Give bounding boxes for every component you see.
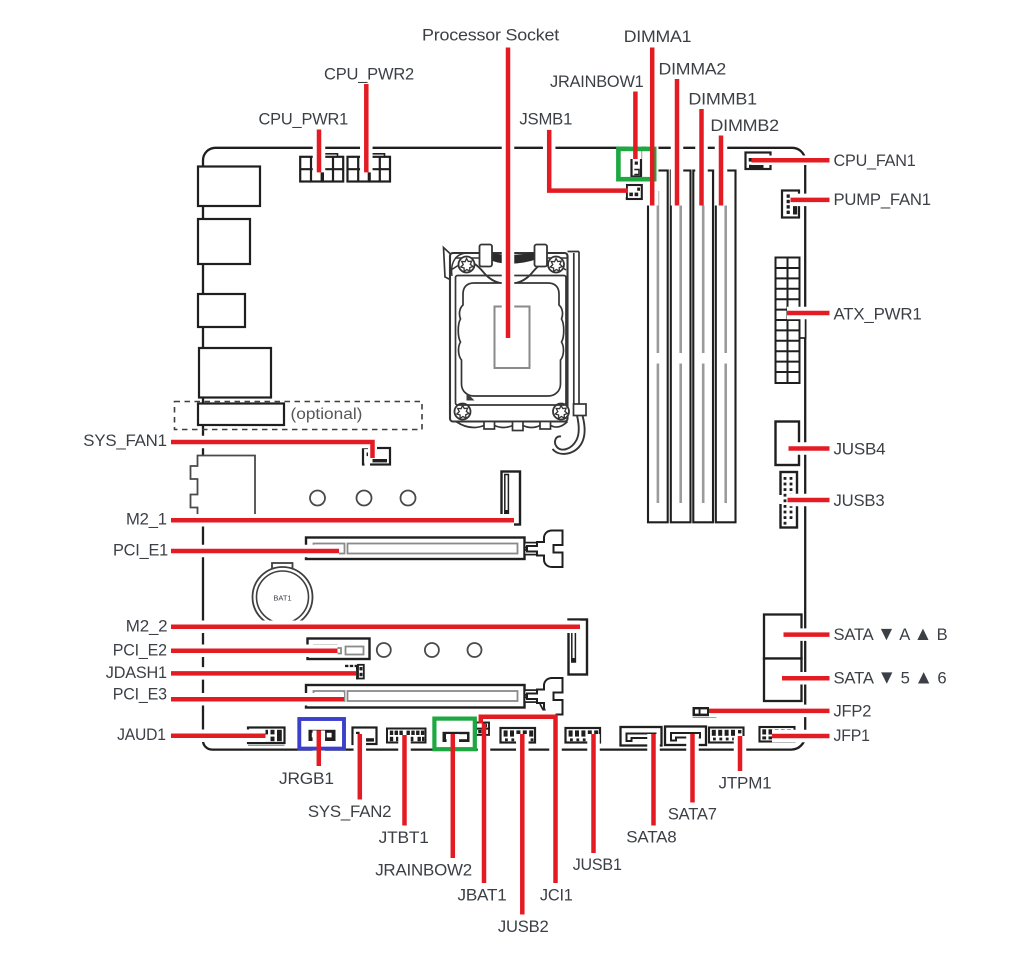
leader JUSB2: [520, 734, 525, 915]
screw bottom-right: [553, 404, 569, 420]
leader DIMMB2: [719, 136, 724, 206]
svg-text:DIMMA2: DIMMA2: [659, 60, 727, 79]
leader SATA8: [651, 734, 656, 826]
leader DIMMA1: [650, 48, 655, 206]
white casings under leader lines: [171, 48, 830, 915]
highlight box JRAINBOW1 (green): [618, 149, 654, 179]
PCIe slot PCI_E1: [306, 538, 525, 560]
mounting hole E: [425, 643, 439, 657]
socket inner plate: [456, 276, 567, 406]
mounting hole D: [377, 643, 391, 657]
leader JAUD1: [171, 734, 266, 739]
connector JRAINBOW2: [443, 732, 470, 742]
highlight box JRAINBOW2 (green): [434, 719, 474, 750]
socket hinge flap top-left: [444, 248, 452, 281]
M.2 slot M2_1: [502, 472, 521, 525]
connector JUSB3: [779, 472, 797, 528]
leader PCI_E2: [171, 648, 338, 653]
socket cavity: [458, 283, 564, 396]
connector JFP2: [693, 707, 717, 717]
connector JBAT1: [476, 729, 489, 735]
leader PUMP_FAN1: [791, 198, 830, 203]
M.2 slot M2_2: [569, 620, 588, 675]
leader CPU_PWR2: [364, 84, 369, 172]
svg-text:JDASH1: JDASH1: [106, 663, 167, 682]
svg-text:CPU_PWR1: CPU_PWR1: [259, 110, 349, 129]
socket frame: [450, 253, 568, 422]
svg-text:CPU_FAN1: CPU_FAN1: [834, 151, 916, 170]
svg-text:PCI_E1: PCI_E1: [113, 540, 168, 559]
rear I/O port 2: [198, 219, 250, 264]
leader JCI1: [479, 715, 558, 883]
svg-text:JUSB2: JUSB2: [498, 917, 549, 936]
svg-text:JRAINBOW1: JRAINBOW1: [550, 72, 644, 91]
optional dashed box: [175, 402, 423, 430]
socket tab right: [535, 245, 548, 267]
leader JFP1: [772, 734, 830, 739]
connector JTPM1: [709, 728, 744, 743]
svg-text:JAUD1: JAUD1: [117, 725, 166, 744]
connector JTBT1: [387, 729, 426, 743]
leader JRAINBOW2: [451, 734, 456, 858]
svg-text:PCI_E2: PCI_E2: [113, 640, 167, 659]
connector SATA7: [665, 727, 706, 746]
leader CPU_PWR1: [317, 130, 322, 173]
connector SYS_FAN2: [353, 728, 377, 746]
connector CPU_PWR1: [300, 154, 343, 182]
svg-text:Processor Socket: Processor Socket: [422, 26, 560, 45]
DIMM slot DIMMB1: [693, 171, 713, 523]
leader JDASH1: [171, 671, 356, 676]
svg-text:JTBT1: JTBT1: [379, 828, 429, 847]
connector JSMB1: [627, 185, 642, 199]
DIMM slot DIMMB2: [716, 171, 736, 523]
mounting hole A: [310, 491, 325, 506]
connector JCI1: [476, 723, 489, 729]
connector CPU_PWR2: [348, 154, 391, 182]
svg-text:M2_1: M2_1: [126, 509, 167, 528]
connector JDASH1: [344, 665, 364, 679]
svg-text:BAT1: BAT1: [273, 594, 291, 603]
leader lines (red): [171, 48, 830, 915]
screw ear top-left: [452, 253, 466, 276]
leader JFP2: [709, 709, 830, 714]
leader M2_1: [171, 518, 514, 523]
mounting hole F: [468, 643, 482, 657]
audio codec chip: [191, 456, 256, 517]
leader CPU_FAN1: [752, 158, 830, 163]
socket cover clip shade: [486, 252, 539, 264]
svg-text:JRAINBOW2: JRAINBOW2: [375, 861, 472, 880]
leader PCI_E3: [171, 697, 344, 702]
battery BAT1: [253, 563, 313, 627]
PCI_E3 retention latch: [525, 678, 563, 715]
screw top-left: [459, 257, 475, 273]
socket tab left: [480, 245, 493, 267]
leader SATA7: [690, 734, 695, 803]
PCI_E1 retention latch: [525, 531, 563, 568]
leader JTBT1: [402, 735, 407, 826]
svg-text:JCI1: JCI1: [540, 886, 573, 905]
mounting hole C: [401, 491, 416, 506]
connector SATA A/B: [764, 615, 802, 659]
connector JRGB1: [309, 730, 336, 741]
rear I/O port 3: [198, 294, 245, 327]
leader JUSB4: [789, 446, 830, 451]
leader PCI_E1: [171, 549, 339, 554]
rear I/O port 1: [198, 167, 260, 207]
screw bottom-left: [455, 404, 471, 420]
svg-text:SATA8: SATA8: [626, 828, 676, 847]
svg-text:JBAT1: JBAT1: [458, 886, 507, 905]
connector JUSB1: [566, 728, 601, 743]
svg-text:SATA ▼ 5 ▲ 6: SATA ▼ 5 ▲ 6: [834, 667, 947, 689]
svg-text:M2_2: M2_2: [126, 616, 168, 635]
connector JFP1: [760, 727, 795, 742]
board outline: [203, 148, 805, 750]
leader JUSB3: [788, 498, 830, 503]
connector JUSB4: [776, 422, 800, 466]
processor socket U1: [444, 245, 587, 454]
leader JTPM1: [738, 736, 743, 771]
DIMM slot DIMMA1: [648, 171, 668, 523]
leader M2_2: [171, 625, 580, 630]
cpu die area: [495, 307, 530, 369]
svg-text:JUSB1: JUSB1: [573, 855, 622, 874]
svg-text:JTPM1: JTPM1: [719, 774, 772, 793]
svg-text:JFP1: JFP1: [834, 726, 870, 745]
PCIe slot PCI_E2: [308, 639, 370, 660]
leader ATX_PWR1: [787, 311, 830, 316]
highlight box JRGB1 (blue): [299, 719, 344, 749]
leader JUSB1: [591, 734, 596, 853]
connector PUMP_FAN1: [782, 191, 799, 218]
leader Processor Socket: [506, 48, 511, 339]
pin-1 triangle: [467, 393, 475, 401]
leader DIMMB1: [699, 109, 704, 206]
svg-text:SYS_FAN1: SYS_FAN1: [83, 431, 167, 450]
svg-text:(optional): (optional): [291, 406, 363, 423]
connector SYS_FAN1: [363, 448, 390, 466]
leader DIMMA2: [675, 79, 680, 206]
svg-text:PUMP_FAN1: PUMP_FAN1: [834, 190, 931, 209]
leader JSMB1: [547, 130, 628, 191]
svg-text:SATA7: SATA7: [668, 805, 717, 824]
socket lever rail: [568, 252, 580, 405]
socket top rail: [451, 258, 567, 270]
mounting hole B: [357, 491, 372, 506]
connector SATA8: [621, 727, 662, 746]
leader JBAT1: [482, 724, 487, 884]
connector CPU_FAN1: [746, 153, 771, 170]
svg-text:JUSB4: JUSB4: [834, 440, 886, 459]
svg-text:DIMMB1: DIMMB1: [688, 90, 757, 109]
svg-text:PCI_E3: PCI_E3: [113, 685, 167, 704]
lever latch: [574, 404, 587, 416]
svg-text:ATX_PWR1: ATX_PWR1: [834, 305, 922, 324]
svg-text:JRGB1: JRGB1: [279, 769, 334, 788]
leader SYS_FAN1: [171, 440, 375, 458]
socket clip wire: [459, 261, 557, 284]
rear I/O port 4: [199, 348, 271, 398]
leader JRGB1: [317, 731, 322, 767]
leader SATA 5/6: [782, 676, 830, 681]
DIMM slot DIMMA2: [671, 171, 691, 523]
leader SYS_FAN2: [358, 734, 363, 800]
svg-text:JUSB3: JUSB3: [834, 491, 885, 510]
socket bottom tabs: [456, 422, 568, 428]
connector ATX_PWR1: [776, 258, 806, 384]
connector JAUD1: [248, 728, 285, 746]
svg-text:DIMMB2: DIMMB2: [710, 116, 779, 135]
svg-text:JSMB1: JSMB1: [519, 110, 572, 129]
rear I/O port 5 (optional): [198, 404, 284, 426]
PCIe slot PCI_E3: [306, 685, 525, 708]
svg-text:CPU_PWR2: CPU_PWR2: [324, 65, 414, 84]
svg-text:SATA ▼ A ▲ B: SATA ▼ A ▲ B: [834, 623, 948, 645]
svg-text:SYS_FAN2: SYS_FAN2: [308, 802, 392, 821]
connector JRAINBOW1: [632, 151, 642, 177]
lever hook: [555, 416, 579, 450]
svg-text:JFP2: JFP2: [834, 702, 872, 721]
connector SATA 5/6: [764, 659, 802, 702]
connector JUSB2: [501, 728, 536, 743]
leader JRAINBOW1: [633, 92, 638, 160]
svg-text:DIMMA1: DIMMA1: [624, 27, 692, 46]
screw top-right: [548, 257, 564, 273]
leader SATA A/B: [784, 632, 830, 637]
